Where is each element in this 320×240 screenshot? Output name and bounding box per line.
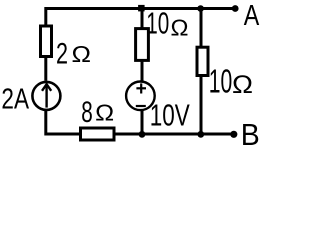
svg-text:10: 10 — [209, 63, 233, 100]
svg-text:Ω: Ω — [232, 71, 253, 99]
svg-text:2A: 2A — [1, 84, 29, 116]
svg-text:B: B — [241, 118, 260, 152]
svg-text:A: A — [244, 0, 260, 32]
svg-text:10: 10 — [146, 7, 169, 41]
svg-text:2: 2 — [56, 37, 68, 70]
svg-text:8: 8 — [81, 96, 93, 129]
svg-text:10V: 10V — [150, 99, 190, 133]
svg-text:Ω: Ω — [95, 100, 114, 126]
svg-text:Ω: Ω — [72, 41, 92, 67]
svg-text:Ω: Ω — [171, 14, 189, 40]
